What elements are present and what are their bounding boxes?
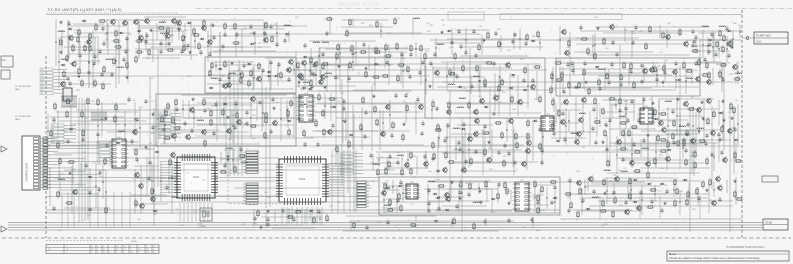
capacitor C16	[145, 33, 148, 39]
resistor R197	[445, 151, 447, 160]
junction	[733, 127, 734, 128]
resistor R302	[694, 161, 696, 170]
transistor Q90	[444, 191, 450, 199]
resistor R191	[515, 132, 517, 141]
resistor R159	[691, 50, 700, 52]
capacitor C99	[571, 68, 574, 74]
transistor Q27	[171, 132, 177, 140]
inductor L21	[598, 69, 605, 70]
capacitor C100	[629, 69, 632, 75]
capacitor C243	[386, 220, 389, 226]
resistor R237	[135, 199, 137, 208]
resistor R227	[57, 141, 59, 150]
resistor R275	[696, 187, 698, 196]
capacitor C168	[390, 133, 393, 139]
transistor Q68	[473, 130, 479, 138]
capacitor C35	[269, 60, 272, 66]
svg-text:TO TX-RX UNIT: TO TX-RX UNIT	[15, 116, 32, 118]
diode D35	[718, 112, 723, 115]
wire	[54, 153, 110, 208]
wire	[432, 62, 541, 113]
resistor R104	[533, 66, 542, 68]
capacitor C222	[567, 208, 570, 214]
resistor R238	[238, 155, 247, 157]
junction	[178, 30, 179, 31]
wire	[532, 185, 556, 205]
transistor Q77	[418, 103, 424, 111]
junction	[232, 159, 233, 160]
capacitor C25	[269, 24, 272, 30]
diode D2	[67, 28, 72, 31]
resistor R80	[336, 52, 338, 61]
junction	[606, 148, 607, 149]
resistor R208	[315, 119, 317, 128]
capacitor C212	[568, 178, 571, 184]
capacitor C7	[78, 53, 81, 59]
small box top pll	[448, 12, 484, 20]
inductor L47	[621, 171, 628, 172]
ground	[730, 116, 733, 120]
wire	[135, 157, 172, 214]
transistor Q92	[576, 179, 582, 187]
ground	[482, 38, 485, 42]
capacitor C237	[317, 209, 320, 215]
resistor R190	[501, 131, 503, 140]
junction	[451, 41, 452, 42]
diode D36	[555, 140, 560, 143]
resistor R45	[250, 69, 252, 78]
diode D1	[81, 20, 86, 23]
junction	[465, 39, 466, 40]
capacitor C130	[626, 118, 629, 124]
inductor L12	[313, 42, 320, 43]
wire	[567, 178, 733, 211]
resistor R165	[619, 122, 628, 124]
resistor R17	[126, 61, 128, 70]
inductor L35	[58, 179, 65, 180]
transistor Q72	[486, 156, 492, 164]
ground	[343, 119, 346, 123]
resistor R271	[629, 192, 631, 201]
resistor R255	[485, 180, 487, 189]
resistor R272	[649, 189, 658, 191]
capacitor C88	[524, 41, 527, 47]
capacitor C74	[455, 74, 458, 80]
resistor R185	[437, 123, 439, 132]
svg-text:TO B/2: TO B/2	[765, 223, 773, 225]
resistor R115	[526, 33, 528, 42]
resistor R281	[686, 198, 688, 207]
diode D30	[594, 66, 599, 69]
diode D4	[60, 64, 65, 67]
junction	[478, 80, 479, 81]
transistor Q48	[561, 28, 567, 36]
resistor R111	[468, 101, 470, 110]
junction	[194, 40, 195, 41]
transistor Q44	[649, 66, 655, 74]
junction	[207, 45, 208, 46]
capacitor C184	[88, 190, 91, 196]
resistor R267	[702, 180, 704, 189]
resistor R101	[476, 64, 478, 73]
capacitor C175	[135, 117, 138, 123]
transistor Q79	[380, 130, 386, 138]
junction	[339, 52, 340, 53]
diode D53	[552, 197, 557, 200]
wire	[330, 16, 413, 38]
capacitor C66	[334, 75, 337, 81]
capacitor C166	[421, 121, 424, 127]
inductor L1	[58, 31, 65, 32]
junction	[223, 111, 224, 112]
junction	[565, 125, 566, 126]
capacitor C80	[492, 111, 495, 117]
capacitor C9	[122, 57, 125, 63]
transistor Q2	[122, 19, 128, 27]
resistor R51	[203, 98, 205, 107]
capacitor C219	[650, 199, 653, 205]
capacitor C106	[721, 77, 724, 83]
junction	[498, 95, 499, 96]
capacitor C215	[639, 190, 642, 196]
resistor R287	[604, 129, 606, 138]
junction	[97, 125, 98, 126]
capacitor C158	[299, 95, 302, 101]
junction	[310, 61, 311, 62]
resistor R7	[77, 35, 79, 44]
svg-text:x: x	[97, 246, 98, 248]
resistor R202	[318, 93, 320, 102]
transistor Q98	[624, 208, 630, 216]
resistor R221	[115, 103, 117, 112]
resistor R247	[384, 182, 386, 191]
resistor R257	[497, 192, 499, 201]
transistor Q61	[581, 96, 587, 104]
resistor R234	[135, 148, 137, 157]
capacitor C84	[513, 32, 516, 38]
resistor R25	[193, 27, 195, 36]
capacitor C161	[404, 93, 407, 99]
diode D32	[726, 30, 731, 33]
IC8	[110, 137, 129, 168]
resistor R68	[204, 139, 206, 148]
junction	[309, 70, 310, 71]
diode D14	[266, 75, 271, 78]
ground	[663, 201, 666, 205]
wire	[696, 30, 733, 64]
resistor R65	[264, 131, 266, 140]
junction	[160, 180, 161, 181]
capacitor C206	[427, 208, 430, 214]
capacitor C128	[624, 106, 627, 112]
resistor R136	[719, 70, 721, 79]
diode D5	[186, 22, 191, 25]
resistor R293	[683, 139, 685, 148]
resistor R290	[657, 134, 659, 143]
junction	[568, 120, 569, 121]
capacitor C204	[467, 192, 470, 198]
ground	[372, 94, 375, 98]
junction	[446, 137, 447, 138]
resistor R95	[349, 18, 351, 27]
resistor R54	[210, 109, 212, 118]
inductor L22	[735, 73, 742, 74]
svg-text:TX-RX UNIT(PLL)(X57-500*-**)(A: TX-RX UNIT(PLL)(X57-500*-**)(A/2)	[48, 8, 122, 12]
junction	[539, 42, 540, 43]
transistor Q85	[150, 195, 156, 203]
capacitor C143	[462, 122, 465, 128]
transistor Q55	[706, 97, 712, 105]
resistor R134	[701, 74, 710, 76]
resistor R291	[672, 132, 674, 141]
capacitor C126	[642, 97, 645, 103]
junction	[171, 34, 172, 35]
ground	[479, 200, 482, 204]
capacitor C223	[660, 208, 663, 214]
junction	[286, 109, 287, 110]
resistor R129	[561, 71, 563, 80]
resistor R259	[534, 180, 536, 189]
resistor R160	[698, 58, 700, 67]
inductor L34	[118, 131, 125, 132]
resistor R172	[673, 119, 675, 128]
scan speckle	[52, 16, 741, 230]
capacitor C173	[144, 99, 147, 105]
junction	[542, 136, 543, 137]
resistor R18	[63, 70, 65, 79]
capacitor C53	[233, 125, 236, 131]
resistor R230	[104, 157, 106, 166]
transistor Q93	[588, 175, 594, 183]
resistor R59	[161, 115, 163, 124]
wire	[426, 62, 537, 116]
svg-text:9.6: 9.6	[123, 246, 126, 248]
resistor R60	[172, 116, 174, 125]
junction	[193, 117, 194, 118]
diode D51	[490, 198, 495, 201]
inductor L26	[619, 116, 626, 117]
inductor L5	[159, 22, 166, 23]
resistor pack comb 2	[91, 112, 107, 120]
resistor R75	[385, 43, 387, 52]
capacitor C24	[249, 24, 252, 30]
capacitor C115	[615, 52, 618, 58]
capacitor C21	[159, 49, 162, 55]
transistor Q88	[423, 160, 429, 168]
diode D23	[510, 74, 515, 77]
inductor L46	[604, 170, 611, 171]
resistor R87	[349, 61, 351, 70]
resistor R207	[406, 104, 408, 113]
junction	[726, 48, 727, 49]
transistor Q38	[493, 94, 499, 102]
svg-text:W2: W2	[146, 252, 149, 254]
inductor L32	[453, 128, 460, 129]
resistor R270	[579, 187, 581, 196]
resistor R224	[114, 115, 116, 124]
resistor R184	[593, 121, 602, 123]
resistor R28	[135, 40, 144, 42]
svg-text:Circuits are subject to change: Circuits are subject to change without n…	[669, 256, 760, 260]
resistor R77	[410, 44, 412, 53]
junction	[174, 123, 175, 124]
junction	[326, 76, 327, 77]
resistor R292	[659, 139, 668, 141]
transistor Q74	[442, 166, 448, 174]
svg-text:CN-1: CN-1	[756, 41, 762, 44]
capacitor C116	[691, 29, 694, 35]
inductor L2	[61, 59, 68, 60]
resistor R88	[397, 64, 406, 66]
capacitor C174	[52, 117, 55, 123]
wire	[50, 104, 158, 145]
resistor R98	[346, 29, 348, 38]
junction	[438, 196, 439, 197]
wire	[296, 41, 421, 90]
transistor Q25	[201, 128, 207, 136]
ground	[402, 122, 405, 126]
capacitor C194	[223, 163, 226, 169]
diode D52	[444, 209, 449, 212]
capacitor C205	[427, 201, 430, 207]
resistor R137	[555, 79, 564, 81]
capacitor C150	[474, 149, 477, 155]
capacitor C179	[81, 137, 84, 143]
junction	[263, 32, 264, 33]
capacitor C201	[497, 182, 500, 188]
resistor R34	[135, 55, 137, 64]
capacitor C14	[110, 72, 113, 78]
resistor R210	[376, 118, 378, 127]
transistor Q53	[564, 49, 570, 57]
wire QFP1 left fan	[160, 162, 174, 193]
resistor R93	[397, 74, 399, 83]
junction	[253, 77, 254, 78]
transistor Q70	[526, 139, 532, 147]
junction	[519, 38, 520, 39]
inductor L25	[719, 26, 726, 27]
capacitor C33	[208, 52, 211, 58]
arrow node B	[1, 146, 7, 152]
resistor R236	[151, 187, 153, 196]
capacitor C68	[408, 74, 411, 80]
transistor Q13	[165, 32, 171, 40]
inductor L43	[473, 202, 480, 203]
resistor R216	[348, 140, 350, 149]
capacitor C232	[684, 148, 687, 154]
capacitor C202	[427, 188, 430, 194]
capacitor C124	[703, 57, 706, 63]
wire	[56, 19, 128, 88]
capacitor C132	[604, 122, 607, 128]
resistor R296	[659, 150, 668, 152]
junction	[453, 72, 454, 73]
capacitor C19	[167, 41, 170, 47]
wire	[351, 216, 533, 230]
ground	[226, 154, 229, 158]
junction	[293, 69, 294, 70]
resistor R265	[629, 177, 631, 186]
capacitor C148	[503, 143, 506, 149]
resistor R196	[433, 152, 435, 161]
resistor R266	[674, 178, 676, 187]
junction	[254, 42, 255, 43]
resistor R171	[733, 106, 735, 115]
resistor R299	[607, 159, 609, 168]
junction	[479, 80, 480, 81]
junction	[319, 218, 320, 219]
resistor R258	[506, 187, 508, 196]
resistor R314	[453, 217, 455, 226]
resistor R30	[198, 42, 200, 51]
resistor R23	[157, 27, 166, 29]
note box	[667, 251, 789, 261]
capacitor C230	[718, 137, 721, 143]
junction	[722, 125, 723, 126]
capacitor C96	[640, 63, 643, 69]
capacitor C193	[239, 147, 242, 153]
junction	[615, 104, 616, 105]
junction	[630, 189, 631, 190]
diode D50	[435, 197, 440, 200]
capacitor C235	[621, 157, 624, 163]
resistor network RN2	[243, 183, 258, 204]
capacitor C211	[550, 200, 553, 206]
transistor Q65	[574, 138, 580, 146]
inductor L29	[697, 128, 704, 129]
capacitor C51	[190, 128, 193, 134]
transistor Q52	[726, 40, 732, 48]
wire	[294, 93, 432, 150]
transistor Q12	[138, 34, 144, 42]
junction	[306, 106, 307, 107]
transistor Q81	[72, 188, 78, 196]
capacitor C133	[671, 109, 674, 115]
inductor L24	[702, 26, 709, 27]
inductor L9	[211, 78, 218, 79]
capacitor C218	[624, 200, 627, 206]
capacitor C208	[455, 204, 458, 210]
junction	[592, 45, 593, 46]
op-amp IC3	[297, 93, 316, 122]
svg-text:MIC: MIC	[2, 60, 6, 62]
junction	[468, 149, 469, 150]
capacitor C129	[608, 118, 611, 124]
svg-text:9.6: 9.6	[103, 252, 106, 254]
capacitor C1	[67, 21, 70, 27]
capacitor C122	[714, 52, 717, 58]
inductor L28	[679, 126, 686, 127]
capacitor C152	[507, 151, 510, 157]
capacitor C135	[733, 127, 736, 133]
junction	[625, 113, 626, 114]
resistor R141	[633, 81, 635, 90]
resistor R105	[448, 73, 457, 75]
resistor R232	[65, 202, 74, 204]
section box synthesizer	[379, 177, 560, 215]
resistor R85	[297, 61, 299, 70]
ground	[151, 112, 154, 116]
inductor L39	[397, 155, 404, 156]
svg-text:IC201: IC201	[193, 176, 200, 179]
resistor R307	[257, 209, 259, 218]
inductor L7	[284, 25, 291, 26]
junction	[552, 74, 553, 75]
junction	[182, 39, 183, 40]
ground	[646, 133, 649, 137]
resistor R35	[224, 22, 226, 31]
transistor Q105	[665, 155, 671, 163]
